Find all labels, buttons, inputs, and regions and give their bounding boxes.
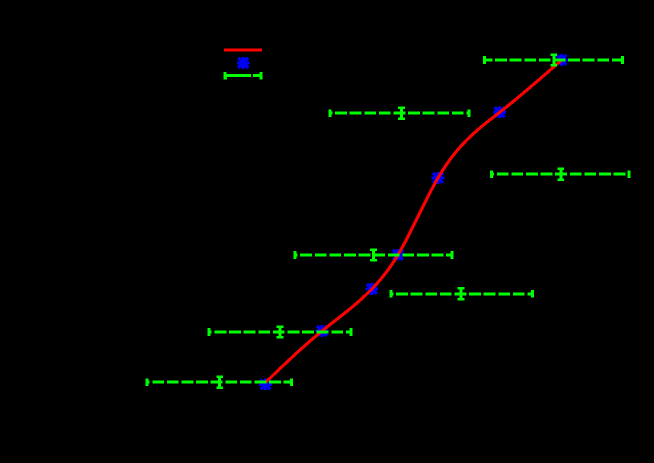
legend green errorbar sample (224, 72, 263, 79)
error bar 4 (295, 248, 452, 261)
error bar 3 (492, 168, 630, 181)
red fit curve s(x) (266, 60, 562, 382)
legend red line sample (224, 49, 262, 52)
data point 3 (432, 172, 445, 184)
legend blue point sample (237, 57, 250, 69)
error bar 1 (484, 53, 622, 66)
error bar 5 (391, 287, 533, 300)
data point 2 (493, 106, 506, 118)
error bar 6 (209, 325, 351, 338)
error bar 2 (330, 107, 469, 120)
data point 7 (259, 378, 272, 390)
data point 5 (365, 283, 378, 295)
data point 6 (316, 325, 329, 337)
error bar 7 (147, 376, 292, 389)
data point 4 (392, 249, 405, 261)
data point 1 (555, 54, 568, 66)
